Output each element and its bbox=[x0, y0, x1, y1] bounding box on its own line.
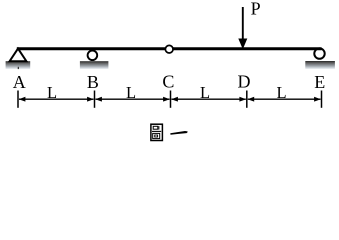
svg-text:L: L bbox=[47, 83, 57, 102]
dimension tick at C bbox=[170, 91, 172, 108]
beam A to E bbox=[17, 47, 322, 50]
svg-text:A: A bbox=[13, 72, 26, 92]
dimension tick at D bbox=[246, 91, 248, 108]
roller support B base pad bbox=[80, 61, 109, 69]
dimension arrow D-E bbox=[248, 98, 321, 100]
roller support E circle bbox=[314, 48, 324, 58]
dimension arrow B-C bbox=[96, 98, 170, 100]
svg-text:C: C bbox=[162, 72, 174, 92]
caption glyph 圖 (figure) bbox=[151, 124, 163, 140]
svg-text:E: E bbox=[314, 72, 325, 92]
force P arrowhead bbox=[238, 39, 247, 50]
svg-text:B: B bbox=[87, 72, 99, 92]
roller support B circle bbox=[88, 51, 98, 61]
pin support A triangle bbox=[10, 49, 27, 62]
caption glyph 一 (one) bbox=[170, 131, 187, 135]
svg-text:D: D bbox=[238, 72, 251, 92]
roller support E base pad bbox=[305, 61, 335, 69]
pin support A base pad bbox=[6, 61, 31, 69]
svg-text:P: P bbox=[251, 0, 261, 19]
force P arrow shaft bbox=[242, 7, 244, 40]
stray centerline tick under pad A bbox=[18, 67, 19, 69]
dimension arrow C-D bbox=[172, 98, 246, 100]
svg-text:L: L bbox=[126, 83, 136, 102]
dimension arrow A-B bbox=[19, 98, 94, 100]
dimension tick at E bbox=[321, 91, 323, 108]
svg-text:L: L bbox=[276, 83, 286, 102]
dimension tick at B bbox=[94, 91, 96, 108]
dimension tick at A bbox=[17, 91, 19, 108]
internal hinge C bbox=[165, 45, 173, 53]
svg-text:L: L bbox=[200, 83, 210, 102]
